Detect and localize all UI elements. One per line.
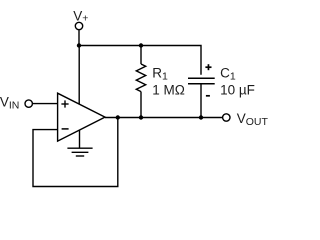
svg-text:1 MΩ: 1 MΩ	[152, 83, 185, 98]
svg-text:10 µF: 10 µF	[220, 83, 255, 98]
